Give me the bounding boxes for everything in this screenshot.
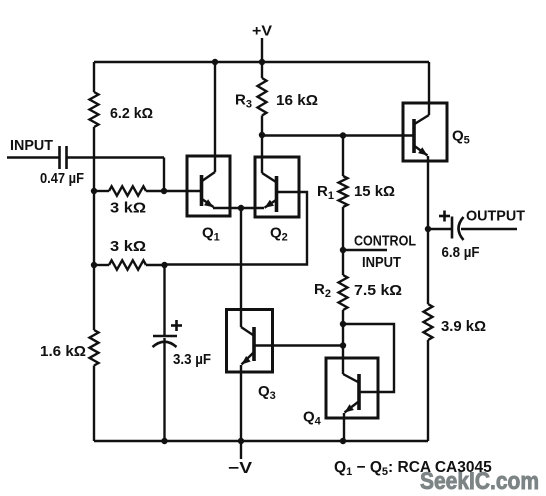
svg-text:16 kΩ: 16 kΩ [276, 92, 318, 109]
svg-text:+V: +V [252, 23, 272, 40]
svg-text:−V: −V [228, 460, 253, 477]
svg-text:3.9 kΩ: 3.9 kΩ [441, 318, 486, 335]
svg-text:3.3 µF: 3.3 µF [173, 351, 211, 368]
svg-text:CONTROL: CONTROL [354, 233, 416, 250]
svg-text:6.8 µF: 6.8 µF [442, 244, 480, 261]
svg-text:1.6 kΩ: 1.6 kΩ [40, 343, 86, 360]
svg-text:INPUT: INPUT [10, 137, 53, 154]
svg-text:0.47 µF: 0.47 µF [40, 170, 84, 187]
svg-text:6.2 kΩ: 6.2 kΩ [110, 105, 153, 122]
svg-text:INPUT: INPUT [362, 254, 401, 271]
svg-text:OUTPUT: OUTPUT [466, 208, 525, 225]
svg-text:15 kΩ: 15 kΩ [354, 183, 395, 200]
svg-text:3 kΩ: 3 kΩ [110, 200, 146, 217]
svg-text:7.5 kΩ: 7.5 kΩ [354, 282, 402, 299]
svg-text:3 kΩ: 3 kΩ [110, 238, 146, 255]
svg-text:Q1 − Q5: RCA CA3045: Q1 − Q5: RCA CA3045 [334, 459, 492, 478]
